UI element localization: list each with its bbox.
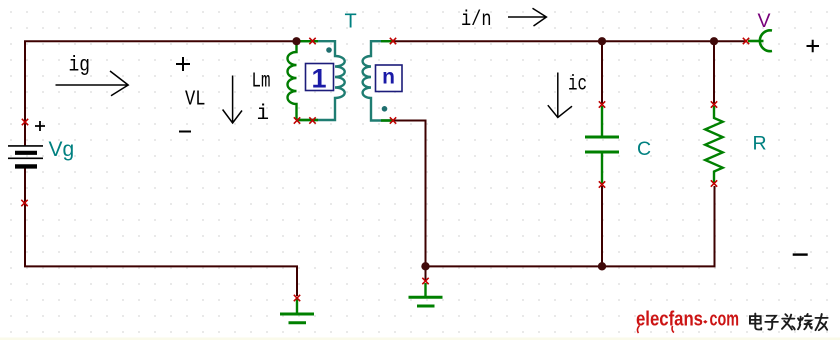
arrow for ig current direction [56,71,129,96]
logo chinese char fa [782,314,795,329]
pin marker winding n top [390,38,396,44]
svg-text:n: n [382,66,395,89]
capacitor C [585,106,619,184]
output plus terminal sign [807,40,820,53]
pin marker resistor R top [711,101,717,107]
pin marker winding 1 top [309,38,315,44]
svg-text:T: T [345,11,357,33]
logo chinese char zi [765,316,778,330]
logo chinese char dian [750,314,761,330]
pin marker ground G1 [294,295,300,301]
logo elecfans.com [636,309,739,331]
node junction dot at transformer primary top [292,37,300,45]
wire C branch bottom [601,186,603,267]
pin marker winding n bottom [390,117,396,123]
pin marker winding 1 bottom [309,117,315,123]
winding 1 phase dot [326,47,332,53]
ground G2 [409,283,443,306]
node junction dot at C top [598,37,606,45]
pin marker battery Vg top [22,119,28,125]
pin marker Lm bottom [294,117,300,123]
wire battery bottom to ground G1 [25,168,297,296]
wire secondary bottom rail to C R bottoms [393,121,715,267]
svg-text:com: com [710,309,740,331]
minus sign of VL polarity [179,131,191,133]
pin marker capacitor C bottom [599,181,605,187]
svg-text:Vg: Vg [49,138,75,161]
pin marker capacitor C top [599,101,605,107]
winding n phase dot [382,106,388,112]
inductor Lm coil [288,41,297,120]
output minus terminal sign [793,253,808,255]
wire top rail right from secondary to output [393,40,746,42]
svg-text:VL: VL [185,89,206,112]
arrow for inductor current i [223,76,242,124]
output terminal V [748,30,772,51]
wire top rail left from battery to primary junction [25,41,297,146]
winding n ratio box [376,65,403,92]
arrow for i/n current direction [508,8,546,26]
node junction dot at C bottom [598,262,606,270]
plus sign of VL polarity [176,57,190,71]
wire C branch top [601,41,603,104]
svg-text:R: R [753,133,767,155]
pin marker battery Vg bottom [21,200,27,206]
svg-text:i/n: i/n [461,9,492,32]
wire ground G2 stub [425,266,427,280]
pin marker output terminal V [743,38,749,44]
logo dot separator [703,320,707,324]
battery Vg [8,146,43,167]
pin marker resistor R bottom [711,180,717,186]
node junction dot at R top [710,37,718,45]
pin marker ground G2 [422,278,428,284]
transformer T secondary winding n [363,41,393,120]
svg-text:elecfans: elecfans [636,309,703,331]
logo swashes [637,326,639,334]
svg-text:C: C [637,138,651,160]
winding 1 pin leads [297,41,319,120]
logo chinese char you [815,314,827,330]
svg-text:ig: ig [69,55,91,78]
transformer T primary winding 1 [297,41,345,120]
ground G1 [280,299,314,323]
winding 1 ratio box [306,64,334,91]
svg-text:i: i [257,103,270,126]
svg-text:V: V [758,10,771,32]
wire R branch top [713,41,715,104]
logo chinese char shao [798,314,812,329]
svg-text:1: 1 [311,64,326,94]
winding n pin leads [381,41,393,120]
arrow for capacitor current ic [548,73,572,118]
plus sign at battery [35,121,45,131]
node junction dot at ground G2 [421,262,429,270]
resistor R [705,106,723,183]
svg-text:Lm: Lm [252,71,271,94]
svg-text:ic: ic [568,74,587,97]
